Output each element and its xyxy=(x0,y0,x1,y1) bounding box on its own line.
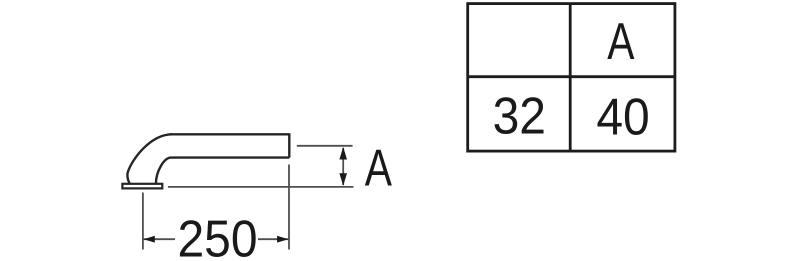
svg-text:32: 32 xyxy=(493,87,546,145)
spec table vertical divider xyxy=(569,4,572,152)
dimension 250 right extension line xyxy=(288,165,290,250)
dimension 250 arrowhead left xyxy=(144,236,155,243)
dimension A arrowhead up xyxy=(339,147,347,160)
dimension 250 left extension line xyxy=(142,193,144,250)
spec table horizontal divider xyxy=(468,75,675,78)
pipe bottom edge xyxy=(171,156,289,158)
dimension A bottom extension line xyxy=(168,186,354,188)
dimension A arrowhead down xyxy=(339,173,347,186)
pipe top edge xyxy=(170,133,289,135)
dimension 250 arrowhead right xyxy=(277,236,288,243)
pipe right end cap xyxy=(288,133,290,157)
dimension A top extension line xyxy=(297,145,353,147)
svg-text:250: 250 xyxy=(177,210,257,261)
dimension 250 line right segment xyxy=(258,238,288,240)
svg-text:A: A xyxy=(365,139,392,197)
dimension 250 line left segment xyxy=(144,238,176,240)
svg-text:40: 40 xyxy=(596,88,649,146)
svg-text:A: A xyxy=(607,12,634,70)
flange at pipe inlet xyxy=(122,184,162,189)
spec table outer border xyxy=(468,4,675,152)
pipe outer bend curve xyxy=(127,134,172,184)
pipe inner bend curve xyxy=(156,158,171,184)
dimension A arrow line xyxy=(342,148,344,185)
